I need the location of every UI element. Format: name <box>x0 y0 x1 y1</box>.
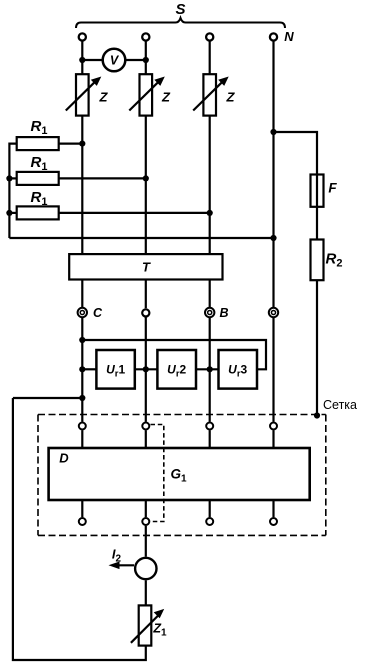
svg-text:R1: R1 <box>31 189 48 208</box>
block Ur2 <box>157 350 196 389</box>
wire R1b right to L2 <box>59 177 146 179</box>
wire left big loop rail down and bottom to Z1 <box>13 398 146 660</box>
terminal L2 small circle <box>142 309 149 316</box>
wire L1 to Ur1 <box>82 368 96 370</box>
svg-text:Сетка: Сетка <box>323 398 357 412</box>
svg-text:R1: R1 <box>31 154 48 173</box>
wire R1c right to L3 <box>59 212 210 214</box>
junction dot L1 voltmeter <box>79 57 85 63</box>
wire voltmeter branch right <box>126 59 146 61</box>
current source I2 <box>109 547 157 580</box>
wire voltmeter branch left <box>82 59 102 61</box>
wire neutral line N vertical <box>272 41 274 307</box>
wire left big loop horizontal to L1 <box>13 397 82 399</box>
terminal B double circle <box>205 306 229 320</box>
svg-text:R2: R2 <box>326 251 343 270</box>
junction dot L2 Ur row <box>143 366 149 372</box>
grid circle L1 bottom <box>79 518 86 525</box>
resistor R2 <box>311 240 343 281</box>
grid circle N bottom <box>270 518 277 525</box>
svg-text:I2: I2 <box>112 547 122 565</box>
impedance Z1 <box>131 605 167 645</box>
wire phase line L3 vertical <box>209 41 211 307</box>
svg-text:Z: Z <box>99 90 109 105</box>
junction dot L1 Ur row <box>79 366 85 372</box>
junction dot L3 R1c <box>207 210 213 216</box>
wire bottom of R1 group to N <box>9 237 273 239</box>
wire grid stems top row into D <box>81 430 83 448</box>
grid circle L3 top <box>206 423 213 430</box>
block D <box>49 448 310 500</box>
grid circle N top <box>270 423 277 430</box>
svg-text:D: D <box>59 451 69 466</box>
svg-text:T: T <box>142 260 151 275</box>
svg-text:R1: R1 <box>31 118 48 137</box>
resistor R1 third <box>17 189 59 219</box>
junction dot L1 R1a <box>79 141 85 147</box>
wire phase line L2 vertical <box>145 41 147 308</box>
junction dot rail R1c <box>6 210 12 216</box>
terminal circle L3 top <box>206 33 213 40</box>
wire phase line L1 lower section <box>81 318 83 422</box>
wire phase line L2 lower section <box>145 318 147 422</box>
terminal C double circle <box>78 306 103 320</box>
svg-text:N: N <box>284 29 294 44</box>
dashed outline G1 <box>151 425 164 522</box>
resistor Z phase 3 <box>193 74 235 115</box>
grid circle L2 top <box>142 423 149 430</box>
wire Ur2 to Ur3 <box>196 368 219 370</box>
wire R1c left <box>9 212 16 214</box>
wire L2 from lower circle to current source <box>145 526 147 557</box>
dashed grid box <box>38 415 326 536</box>
junction dot rail R1b <box>6 175 12 181</box>
resistor Z phase 2 <box>129 74 171 115</box>
svg-text:S: S <box>175 1 185 18</box>
voltmeter V <box>103 49 126 72</box>
wire stems D bottom to lower circles <box>81 500 83 517</box>
wire R1a to left rail and left rail <box>9 144 16 238</box>
junction dot L1 loop wire <box>79 337 85 343</box>
wire loop from L1 to Ur3 right <box>82 340 266 369</box>
wire R1b left <box>9 177 16 179</box>
svg-text:Z: Z <box>161 90 171 105</box>
resistor R1 second <box>17 154 59 185</box>
grid circle L2 bottom <box>142 518 149 525</box>
svg-text:G1: G1 <box>170 467 187 485</box>
wire neutral line N lower section <box>272 318 274 422</box>
junction dot L2 voltmeter <box>143 57 149 63</box>
resistor Z phase 1 <box>66 74 109 115</box>
wire R1a right to L1 <box>59 143 83 145</box>
brace S <box>76 18 285 28</box>
junction dot L1 left loop <box>79 395 85 401</box>
terminal circle L2 top <box>142 33 149 40</box>
svg-text:F: F <box>328 181 337 196</box>
terminal N double circle <box>269 308 278 317</box>
junction dot N right branch <box>270 129 276 135</box>
svg-text:Z1: Z1 <box>152 622 167 639</box>
block Ur1 <box>96 350 134 389</box>
svg-text:C: C <box>93 306 103 320</box>
resistor R1 first <box>17 118 59 150</box>
wire N to right branch <box>274 132 318 416</box>
terminal circle L1 top <box>79 33 86 40</box>
grid circle L3 bottom <box>206 518 213 525</box>
fuse F <box>311 175 338 207</box>
transformer block T <box>69 254 222 279</box>
junction dot N bottom wire <box>270 235 276 241</box>
wire current source to Z1 <box>145 580 147 605</box>
junction dot L3 Ur row <box>207 366 213 372</box>
svg-text:B: B <box>219 306 228 320</box>
terminal circle N top <box>270 33 277 40</box>
grid circle L1 top <box>79 423 86 430</box>
wire Ur1 to Ur2 <box>135 368 158 370</box>
junction dot right branch to grid box <box>314 412 320 418</box>
junction dot L2 R1b <box>143 175 149 181</box>
wire phase line L3 lower section <box>209 318 211 422</box>
svg-text:Z: Z <box>226 90 236 105</box>
wire phase line L1 vertical <box>81 41 83 307</box>
block Ur3 <box>219 350 258 389</box>
